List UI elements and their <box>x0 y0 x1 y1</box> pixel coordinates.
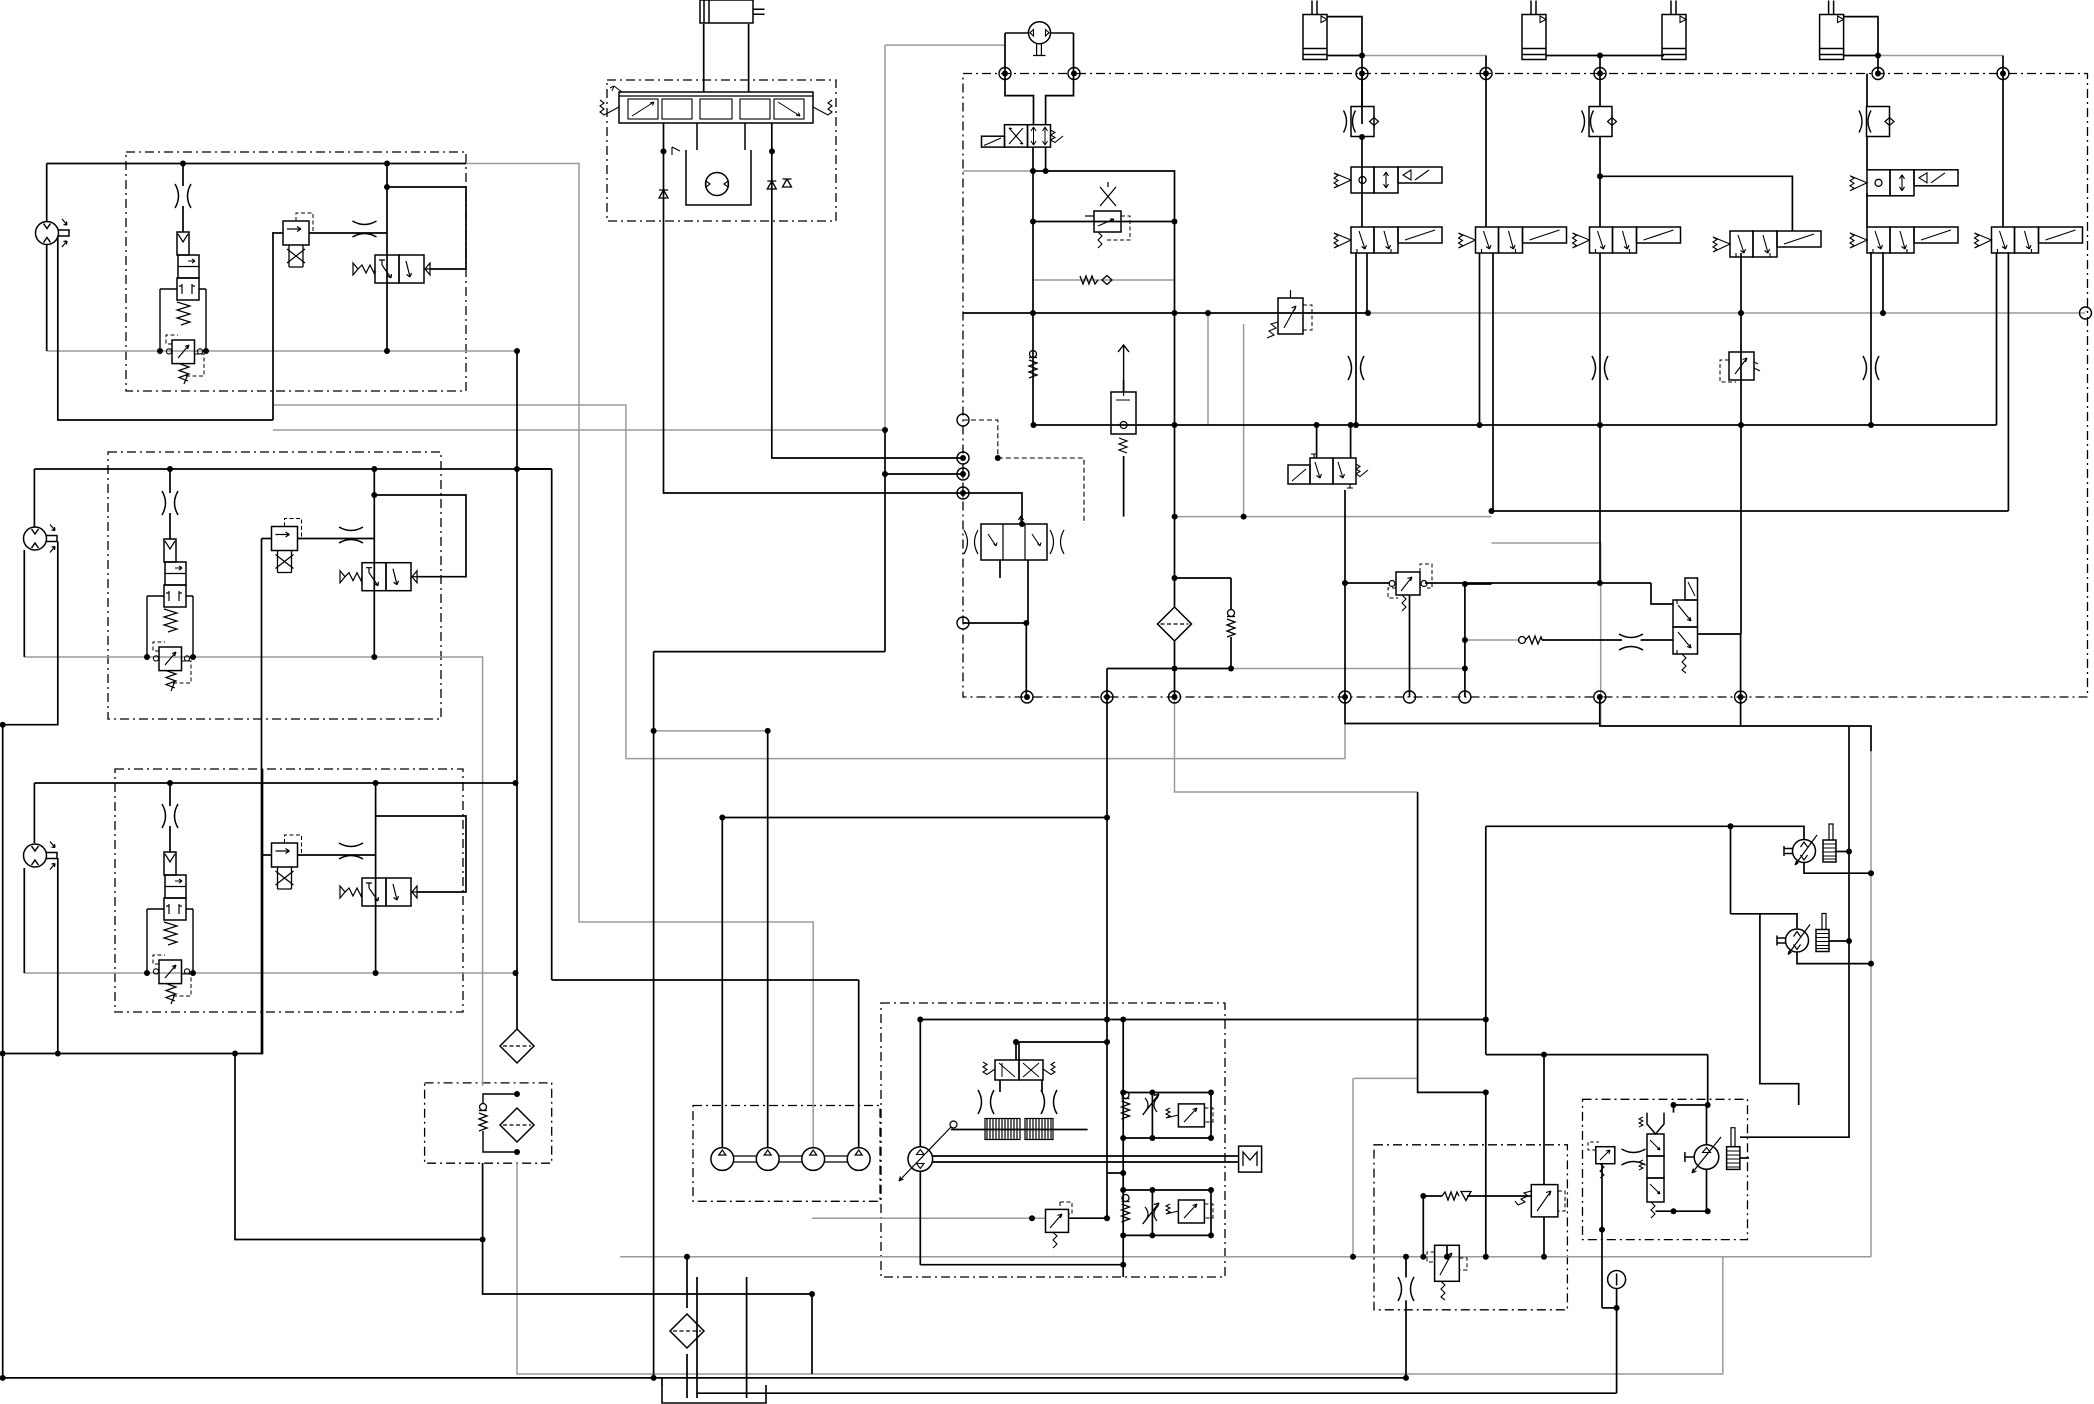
wire x551 drop <box>551 469 553 980</box>
wire colE mid <box>1866 137 1868 170</box>
fan throttle <box>1622 1149 1646 1165</box>
wire gray motor return drop <box>1352 1078 1354 1256</box>
wire x517 branch <box>517 468 552 470</box>
center relief pump box <box>1046 1202 1073 1248</box>
wire motor1 spring tie <box>1835 851 1849 853</box>
wire cyl2-cyl3 line <box>1546 55 1664 57</box>
wire loop left leg <box>1485 826 1487 1054</box>
wire shaft bottom <box>933 1161 1239 1163</box>
wire gray center relief feed <box>812 1217 1046 1219</box>
wire gray group1 bus to riser <box>466 164 813 1149</box>
wire G3 pilot left stub <box>262 854 272 856</box>
wire fanbox left column <box>1601 1164 1603 1308</box>
wire x812 drop <box>811 1294 813 1374</box>
wire group3 top bus <box>34 782 515 784</box>
wire group1 motor return <box>46 244 48 351</box>
wire x1464 branch <box>1464 584 1466 697</box>
wire group2 pilot link <box>298 538 375 540</box>
wire return branch <box>483 1163 812 1294</box>
wire fan hatch tie <box>1740 1157 1749 1159</box>
wire group1 second line <box>387 187 466 269</box>
wire group1 motor supply <box>46 164 48 223</box>
wire fanbox valve feed <box>1673 1105 1675 1113</box>
wire motor2 drain <box>1797 952 1871 964</box>
top cylinder horizontal <box>700 0 765 23</box>
wire group1 pilot stub <box>273 232 283 234</box>
pilot dashed network <box>963 420 1084 524</box>
wire colA1 right leg <box>1045 147 1047 171</box>
wire gray group3 case drain <box>24 972 515 974</box>
wire pilot box out C lower <box>884 430 886 652</box>
throttle2 group3 <box>339 843 363 859</box>
wire port 1740 stub <box>1740 697 1742 726</box>
wire servo feed <box>1015 1042 1017 1060</box>
wire loop drop to fanbox <box>1707 1055 1709 1105</box>
wire loop bottom <box>1486 1054 1708 1056</box>
pilot control valve block <box>600 86 832 123</box>
unloader valve group2 <box>340 563 417 591</box>
check valve pilot out B <box>767 181 776 189</box>
spring check upper ladder <box>1122 1092 1130 1120</box>
wire gray spring check line <box>1033 279 1175 281</box>
wire pilot box out A <box>664 123 964 493</box>
wire cyl1 rod stub <box>1327 55 1362 57</box>
wire shared pilot drop <box>261 539 263 1054</box>
flow control lower ladder <box>1143 1203 1159 1224</box>
cylinder C4 <box>1820 1 1844 60</box>
enclosure pump bank box <box>693 1106 880 1202</box>
wire port474 stub <box>885 473 963 475</box>
throttle group1 <box>175 184 191 208</box>
wire V11 out <box>1698 634 1741 697</box>
wire gray return header <box>620 1256 1871 1258</box>
wire V11 inlet <box>1651 583 1673 604</box>
wire motor standline <box>1740 726 1849 1137</box>
wire colB leg2 <box>1492 253 1494 511</box>
tank reservoir <box>662 1385 766 1403</box>
wire colC drop <box>1599 56 1601 74</box>
bypass check manifold <box>1227 610 1235 638</box>
wire valve A bottom leg2 <box>1366 253 1368 313</box>
wire pump col 2 <box>767 731 769 1148</box>
pump P3 <box>802 1148 825 1171</box>
wire filter bypass lower <box>1230 637 1232 669</box>
wire manifold main bus <box>1034 424 1997 426</box>
wire colB drop <box>1485 56 1487 74</box>
wire ladder right rail lower <box>1210 1190 1212 1235</box>
brake relief <box>1515 1185 1565 1217</box>
wire 2way valve feed <box>1123 380 1125 392</box>
wire pump return line <box>920 1264 1123 1266</box>
wire valve A1 to A2 column <box>1355 253 1357 425</box>
wire throttle drop <box>1405 1300 1407 1378</box>
wire gauge drop <box>1616 1289 1618 1393</box>
wire colE legs <box>1870 252 1872 425</box>
wire gray tank header low <box>517 1163 1723 1374</box>
wire gray cyl1 rod line <box>1362 55 1486 57</box>
wire ladder rung 1 <box>1123 1092 1211 1094</box>
wire pilot cyl link R <box>748 24 750 92</box>
wire reducing drop <box>1446 1245 1448 1257</box>
wire group2 stack feed <box>169 469 171 493</box>
wire filter2 column <box>686 1257 688 1308</box>
wire fanbox top line <box>1674 1104 1708 1106</box>
wire port circuit y623 <box>963 623 1026 697</box>
relief valve V10 <box>1388 564 1432 611</box>
wire manifold LS dark part <box>963 312 1368 314</box>
wire group2 riser <box>373 469 375 657</box>
wire group3 drain drop <box>57 858 59 1054</box>
cylinder C3 <box>1662 1 1686 60</box>
solenoid valve A1 top <box>982 125 1064 147</box>
brake throttle <box>1398 1277 1414 1301</box>
throttle2 group1 <box>353 221 377 237</box>
variable motor VM1 <box>1784 824 1836 865</box>
wire manifold bus y511 <box>1492 510 2009 512</box>
wire shaft top <box>933 1155 1239 1157</box>
wire colE low <box>1866 193 1868 227</box>
wire pump box pressure line <box>920 1019 1123 1021</box>
wire gray motor return link <box>1353 1077 1418 1079</box>
wire gray LS drop x1208 <box>1207 313 1209 425</box>
pilot block check right <box>672 147 792 187</box>
wire colA1 drop <box>1032 147 1034 425</box>
wire y583 link <box>1345 582 1390 584</box>
wire colF leg1 <box>1996 252 1998 425</box>
brake reducing valve <box>1427 1245 1467 1300</box>
wire 43valve drop L <box>999 1080 1001 1092</box>
wire pressure out to right <box>1123 1019 1486 1021</box>
wire motor1 top feed <box>1486 826 1804 839</box>
pressure gauge <box>1608 1271 1626 1289</box>
relief upper ladder <box>1166 1104 1213 1127</box>
wire gray pilot drain B <box>273 429 885 431</box>
enclosure power unit box <box>881 1003 1225 1277</box>
flow control colA <box>1344 107 1379 137</box>
cylinder C2 <box>1522 1 1546 60</box>
wire port1107 drop <box>1106 669 1108 1043</box>
wire group2 motor supply <box>33 469 35 527</box>
wire pump col 4 <box>858 980 860 1148</box>
motor box M <box>1239 1146 1262 1172</box>
valve stack group1 <box>160 232 206 384</box>
wire colC riser <box>1599 74 1601 108</box>
wire ladder mid rail upper <box>1151 1093 1153 1139</box>
solenoid valve D3 <box>1713 231 1821 257</box>
solenoid valve A3 <box>1334 227 1442 253</box>
solenoid valve E2 <box>1850 170 1958 196</box>
filter manifold <box>1158 607 1192 641</box>
wire gray brake pilot line <box>1465 639 1520 641</box>
wire bottom-left return <box>3 769 263 1054</box>
variable motor VM2 <box>1777 914 1829 955</box>
wire group1 stack feed <box>182 164 184 187</box>
hydraulic motor M3 <box>24 842 58 870</box>
wire group3 pilot link <box>298 854 376 856</box>
wire V8 feed legs <box>1316 425 1318 458</box>
manifold left ports <box>957 307 2092 629</box>
enclosure pump group 1 <box>126 152 466 391</box>
wire brake check to relief <box>1467 1195 1531 1197</box>
wire left tank rail <box>2 725 4 1378</box>
check valve pilot out A <box>659 190 668 198</box>
flow control upper ladder <box>1143 1094 1159 1115</box>
wire group1 top bus <box>47 163 466 165</box>
wire motor2 top feed <box>1730 826 1732 914</box>
wire gray right standpipe <box>1870 751 1872 1256</box>
wire gray group2 case drain <box>24 657 482 1086</box>
wire V8 out <box>1344 490 1346 697</box>
5port pilot block <box>964 516 1064 560</box>
solenoid valve E3 <box>1850 227 1958 253</box>
wire gray fan loop <box>1492 543 1601 726</box>
wire ladder mid rail lower <box>1151 1190 1153 1235</box>
wire filter2 tank drop <box>686 1354 688 1398</box>
top motor in manifold <box>1005 22 1074 56</box>
wire suction ext <box>1600 697 1849 726</box>
solenoid valve B3 <box>1459 227 1567 253</box>
manifold bottom ports <box>1021 691 1747 703</box>
wire pump box drain 2 <box>746 1277 748 1398</box>
wire group3 motor supply <box>33 783 35 843</box>
wire group3 motor return <box>23 868 25 973</box>
pilot block gauge <box>706 173 729 196</box>
hydraulic motor M2 <box>24 525 58 553</box>
wire brake loop <box>1422 1196 1424 1257</box>
wire fan pump bottom <box>1706 1169 1708 1211</box>
wire fanbox bottom line <box>1656 1210 1708 1212</box>
wire group1 riser <box>386 164 388 352</box>
wire G3 return corner <box>235 1054 483 1240</box>
pilot valve group3 <box>272 835 302 889</box>
wire group3 stack feed <box>169 783 171 806</box>
wire colA2 <box>1033 171 1175 578</box>
wire brake valve out <box>1543 1217 1545 1257</box>
filter F3 bottom <box>670 1314 704 1348</box>
wire colC pilot branch y176 <box>1600 176 1792 231</box>
wire colE riser <box>1866 74 1868 108</box>
flow control colE <box>1859 107 1894 137</box>
pump shaft links <box>734 1156 848 1162</box>
wire colB leg1 <box>1479 253 1481 425</box>
solenoid valve A2 <box>1334 167 1442 193</box>
enclosure brake valve box <box>1374 1145 1567 1310</box>
wire gray pilot drain A <box>273 405 626 759</box>
wire motor1 drain <box>1804 863 1871 874</box>
reducing valve x1107 <box>1085 182 1130 248</box>
wire G2 pilot left stub <box>262 538 272 540</box>
filter F1 <box>500 1029 534 1063</box>
solenoid valve C3 <box>1573 227 1681 253</box>
valve stack group3 <box>147 852 193 1004</box>
wire group2 motor return <box>23 550 25 657</box>
fan 3stack valve <box>1639 1113 1664 1218</box>
wire gray pilot relief drain <box>1243 324 1245 517</box>
pilot valve group2 <box>272 519 302 573</box>
wire V11 throttle line <box>1542 639 1622 641</box>
wire cyl4 head line <box>1843 17 1878 74</box>
enclosure main valve manifold <box>963 74 2088 698</box>
wire gray suction corner <box>626 724 1345 759</box>
wire pump box drain 1 <box>696 1277 698 1398</box>
wire main pump riser <box>919 1020 921 1147</box>
wire vblock feed <box>963 493 1022 524</box>
throttle before V11 <box>1619 634 1643 650</box>
wire group1 drain L <box>58 236 273 420</box>
throttle colC low <box>1592 356 1608 380</box>
wire group1 pilot link <box>309 232 387 234</box>
wire gray group1 LS line <box>47 350 517 352</box>
wire vblock leg2 <box>1027 560 1029 623</box>
wire tank return riser link <box>654 651 885 653</box>
relief lower ladder <box>1166 1200 1213 1223</box>
wire servo rod <box>951 1129 1088 1131</box>
wire cyl1 head line <box>1327 17 1362 124</box>
wire group3 second line <box>376 816 466 892</box>
wire center relief drop <box>1106 1042 1108 1218</box>
reducing valve colD <box>1720 344 1760 388</box>
wire tank drop <box>661 1378 663 1386</box>
wire col4 feed <box>552 979 859 981</box>
wire gray col2 feed <box>654 730 768 732</box>
enclosure return filter box <box>425 1083 552 1163</box>
wire cooler drop x653 <box>653 652 655 1378</box>
wire x1485 lower <box>1485 1092 1487 1256</box>
wire V8 leg2 <box>1350 425 1352 458</box>
wire top motor right <box>1046 33 1074 125</box>
wire vblock leg1 <box>999 560 1001 578</box>
servo throttles <box>978 1090 994 1114</box>
wire colA valves <box>1361 137 1363 227</box>
servo actuator hatched <box>985 1119 1053 1140</box>
spring check brake pilot <box>1519 636 1543 644</box>
wire ladder rung 2 <box>1123 1137 1211 1139</box>
wire ladder right rail <box>1210 1093 1212 1139</box>
pump P1 <box>711 1148 734 1171</box>
wire x1107 to ladder rung <box>1107 1172 1123 1174</box>
wire group3 riser <box>375 783 377 973</box>
wire fan pump top <box>1706 1105 1708 1145</box>
junction dots (all solder/connection points across schematic) <box>180 161 186 167</box>
wire supply drop x517 <box>516 351 518 1030</box>
unloader valve group3 <box>340 878 417 906</box>
wire x1417 drop <box>1418 792 1486 1092</box>
wire gray port171 stub <box>963 170 1033 172</box>
wire gray manifold mid bus <box>1175 516 1492 518</box>
wire gray port 1174 drop <box>1175 697 1418 792</box>
wire ports to suction <box>1345 697 1600 724</box>
wire group2 top bus <box>34 468 551 470</box>
wire colC mid <box>1599 137 1601 227</box>
43 valve pump control <box>983 1060 1055 1080</box>
flow control colC <box>1582 107 1617 137</box>
wire colE leg2 <box>1882 252 1884 313</box>
spring check on gray 280 <box>1080 276 1112 285</box>
pump P2 <box>756 1148 779 1171</box>
unloader valve group1 <box>353 255 430 283</box>
spring check on x1033 column <box>1029 351 1037 379</box>
wire colF riser <box>2002 74 2004 228</box>
wire group2 drain L <box>3 542 58 725</box>
wire colA flow line <box>1361 74 1363 107</box>
wire V10 drop <box>1409 595 1411 697</box>
enclosure pilot control box <box>607 80 836 221</box>
wire 2way valve drain <box>1123 456 1125 517</box>
wire gray jumper <box>1849 726 1871 751</box>
wire group1 pilot column <box>272 232 274 420</box>
wire x1174 tap <box>1175 577 1232 579</box>
2way valve x1123 <box>1111 345 1136 453</box>
wire manifold tank stub <box>1107 668 1231 670</box>
wire 43valve feed <box>1018 1042 1020 1060</box>
wire x1174 filter link <box>1174 578 1176 608</box>
wire throttle column upper <box>1405 1257 1407 1278</box>
wire tank return main <box>697 1392 1617 1394</box>
fan pump <box>1685 1128 1740 1173</box>
wire x1107 inside <box>1016 1041 1107 1043</box>
solenoid valve F3 <box>1975 227 2083 253</box>
wire colB riser <box>1485 74 1487 228</box>
wire pump col 1 <box>721 818 723 1149</box>
wire filter bypass drop <box>1230 578 1232 610</box>
wire gray top link to motor <box>885 44 1005 46</box>
throttle colE low <box>1863 356 1879 380</box>
wire motor2 spring tie <box>1829 940 1849 942</box>
manifold top ports <box>999 68 2009 80</box>
wire motor2 top link <box>1731 914 1798 928</box>
wire gray standpipe x885 <box>884 45 886 430</box>
wire throttle to V11 <box>1641 639 1673 641</box>
wire center relief line gray side <box>1068 1217 1107 1219</box>
cylinder C1 <box>1303 1 1327 60</box>
wire col1 feed from port <box>722 817 1107 819</box>
filled port centers <box>1002 71 1008 77</box>
throttle group2 <box>162 491 178 515</box>
enclosure fan drive box <box>1583 1099 1748 1239</box>
wire gray tank line in manifold <box>1231 668 1465 670</box>
spring check lower ladder <box>1122 1195 1130 1223</box>
wire cyl4 rod stub <box>1843 55 1878 57</box>
throttle colA low <box>1348 356 1364 380</box>
wire 43valve drop R <box>1041 1080 1043 1092</box>
enclosure pump group 2 <box>108 452 441 719</box>
relief valve R1 <box>1267 290 1312 338</box>
wire ladder rung 3 <box>1123 1189 1211 1191</box>
valve V8 3pos <box>1288 454 1368 488</box>
wire y584 stub <box>1465 583 1492 585</box>
wire colD down <box>1740 253 1742 634</box>
wire pilot box out B <box>772 123 963 458</box>
wire bottom tank line <box>3 1377 1406 1379</box>
wire y583 link2 <box>1425 582 1651 584</box>
filter box bypass wires <box>483 1094 517 1152</box>
pump P4 <box>847 1148 870 1171</box>
wire brake check line <box>1423 1195 1442 1197</box>
wire gauge link <box>1602 1307 1617 1309</box>
fan small relief <box>1588 1142 1615 1178</box>
valve V11 <box>1673 578 1698 673</box>
wire pump return drop <box>919 1172 921 1265</box>
wire motor loop down <box>1760 914 1799 1105</box>
wire pilot cyl link L <box>703 24 705 92</box>
main variable pump P5 <box>899 1121 957 1181</box>
wire brake box column <box>1543 1055 1545 1185</box>
pilot valve group1 <box>283 213 313 267</box>
filter F2 in box <box>500 1108 534 1142</box>
wire reducing valve line <box>1033 221 1175 223</box>
valve stack group2 <box>147 539 193 691</box>
wire gray cyl4 rod line <box>1878 55 2003 57</box>
